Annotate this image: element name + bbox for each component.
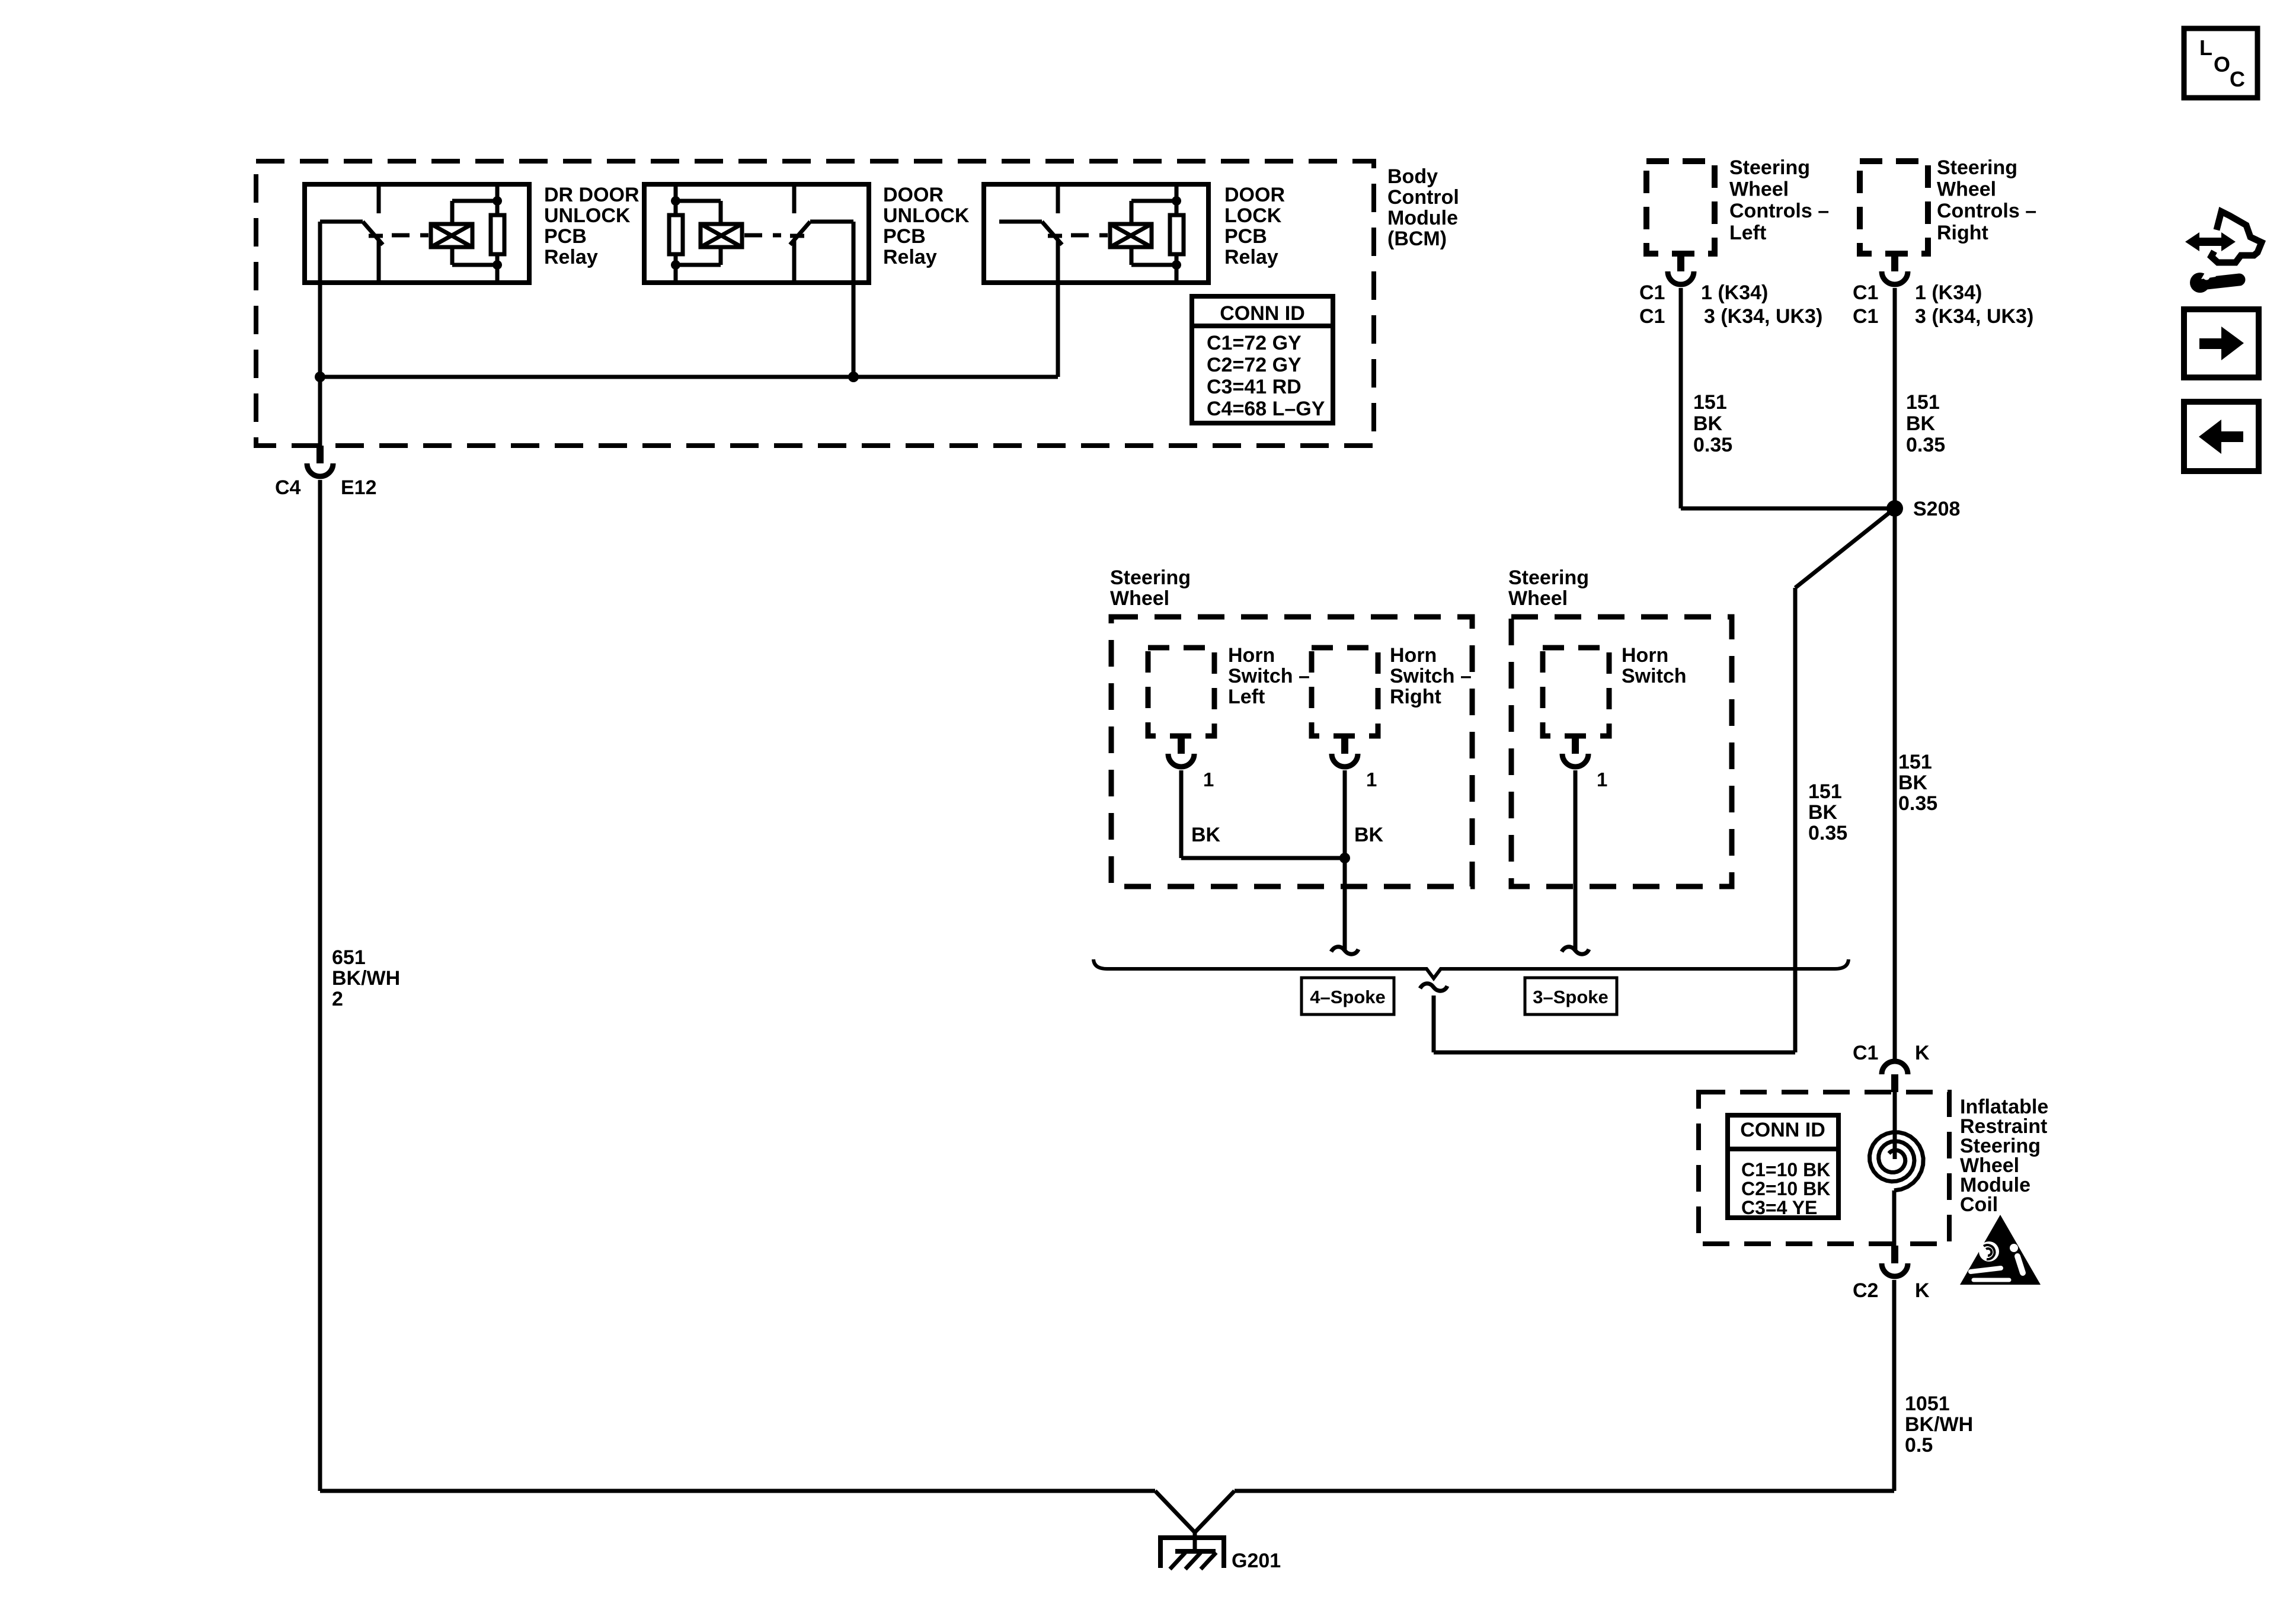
wire S208 diagonal branch <box>1795 508 1895 588</box>
svg-text:Steering: Steering <box>1110 566 1191 589</box>
svg-text:Controls –: Controls – <box>1729 200 1829 222</box>
svg-text:3–Spoke: 3–Spoke <box>1533 987 1609 1007</box>
svg-text:151: 151 <box>1808 780 1842 803</box>
wire horn join horizontal <box>1181 856 1345 860</box>
svg-text:3 (K34, UK3): 3 (K34, UK3) <box>1915 305 2033 328</box>
svg-text:Control: Control <box>1387 186 1459 209</box>
svg-text:C4: C4 <box>275 476 301 499</box>
wire relay K3 switch drop <box>1056 239 1060 377</box>
svg-text:C1: C1 <box>1853 1042 1878 1064</box>
connector horn left pin 1 <box>1178 736 1185 754</box>
svg-text:BK: BK <box>1354 824 1384 846</box>
svg-text:0.35: 0.35 <box>1898 792 1937 815</box>
svg-text:151: 151 <box>1898 751 1932 773</box>
svg-text:Steering: Steering <box>1937 156 2017 179</box>
svg-text:C1: C1 <box>1639 305 1665 328</box>
svg-text:Relay: Relay <box>1224 246 1278 268</box>
svg-text:C2: C2 <box>1853 1279 1878 1302</box>
svg-text:Switch –: Switch – <box>1228 665 1310 687</box>
break symbol 3-spoke wire <box>1562 947 1589 954</box>
relay K3 DOOR LOCK PCB Relay <box>984 184 1208 283</box>
svg-text:C1=72 GY: C1=72 GY <box>1207 332 1302 354</box>
svg-text:Horn: Horn <box>1390 644 1437 667</box>
wire bus to C4 <box>318 377 322 446</box>
4-Spoke option box <box>1302 978 1394 1014</box>
svg-text:0.35: 0.35 <box>1808 822 1847 844</box>
wire bottom right diagonal <box>1195 1491 1235 1532</box>
svg-text:0.35: 0.35 <box>1693 434 1732 456</box>
wire coil to C2 <box>1892 1190 1897 1246</box>
svg-text:4–Spoke: 4–Spoke <box>1310 987 1386 1007</box>
svg-text:Wheel: Wheel <box>1110 587 1169 610</box>
CONN ID table (coil) <box>1728 1115 1838 1218</box>
svg-text:BK: BK <box>1898 772 1928 794</box>
svg-text:PCB: PCB <box>544 225 587 248</box>
Horn Switch dashed box <box>1543 648 1609 736</box>
svg-text:C3=4 YE: C3=4 YE <box>1741 1197 1817 1218</box>
svg-text:L: L <box>2199 36 2212 60</box>
wire relay K2 switch drop <box>852 222 856 377</box>
svg-text:Controls –: Controls – <box>1937 200 2036 222</box>
svg-text:Relay: Relay <box>544 246 598 268</box>
svg-text:DOOR: DOOR <box>1224 184 1285 206</box>
svg-text:C1: C1 <box>1853 281 1878 304</box>
svg-text:1051: 1051 <box>1905 1393 1950 1415</box>
junction dot bus-K2 <box>848 372 859 382</box>
svg-text:Horn: Horn <box>1622 644 1668 667</box>
svg-text:Steering: Steering <box>1729 156 1810 179</box>
svg-text:Right: Right <box>1390 686 1441 708</box>
warning triangle SIR <box>1960 1215 2041 1285</box>
svg-text:BK: BK <box>1808 801 1838 824</box>
svg-text:651: 651 <box>332 946 366 969</box>
svg-text:C2=72 GY: C2=72 GY <box>1207 354 1302 376</box>
svg-text:1: 1 <box>1203 769 1214 790</box>
svg-text:C1: C1 <box>1853 305 1878 328</box>
Horn Switch - Left dashed box <box>1148 648 1214 736</box>
svg-text:BK: BK <box>1191 824 1221 846</box>
svg-text:BK/WH: BK/WH <box>1905 1413 1973 1436</box>
CONN ID table (BCM) <box>1192 296 1333 423</box>
wire 151 BK left <box>1679 288 1683 508</box>
connector horn right pin 1 <box>1341 736 1348 754</box>
wire left-to-S208 horizontal <box>1681 507 1895 511</box>
svg-text:C2=10 BK: C2=10 BK <box>1741 1178 1830 1199</box>
svg-text:Wheel: Wheel <box>1508 587 1568 610</box>
wire C2 down <box>1892 1280 1897 1491</box>
diagnostic icon (arrow, outline, wrench) <box>2185 232 2236 251</box>
svg-text:Coil: Coil <box>1960 1193 1998 1216</box>
splice S208 <box>1886 500 1903 517</box>
wire bottom right horizontal <box>1235 1489 1894 1493</box>
svg-text:C3=41 RD: C3=41 RD <box>1207 376 1302 398</box>
svg-text:BK: BK <box>1693 412 1723 435</box>
svg-text:3 (K34, UK3): 3 (K34, UK3) <box>1704 305 1822 328</box>
svg-text:C4=68 L–GY: C4=68 L–GY <box>1207 398 1325 420</box>
svg-text:BK/WH: BK/WH <box>332 967 400 990</box>
svg-text:Horn: Horn <box>1228 644 1275 667</box>
svg-text:UNLOCK: UNLOCK <box>544 204 631 227</box>
wire relay K1 switch drop <box>318 222 322 377</box>
svg-text:S208: S208 <box>1913 498 1960 520</box>
svg-text:Module: Module <box>1387 207 1458 229</box>
svg-text:Relay: Relay <box>883 246 937 268</box>
svg-text:LOCK: LOCK <box>1224 204 1282 227</box>
Steering Wheel Controls - Right dashed box <box>1860 161 1928 254</box>
wire horn single drop <box>1574 770 1578 950</box>
svg-text:K: K <box>1915 1279 1930 1302</box>
Steering Wheel left dashed box <box>1111 617 1472 886</box>
wire C1 to coil center <box>1893 1092 1897 1159</box>
svg-text:Wheel: Wheel <box>1937 178 1996 201</box>
svg-text:DR DOOR: DR DOOR <box>544 184 639 206</box>
svg-text:Body: Body <box>1387 165 1438 188</box>
svg-text:CONN ID: CONN ID <box>1220 302 1305 325</box>
LOC reference box <box>2184 28 2257 98</box>
svg-text:1 (K34): 1 (K34) <box>1915 281 1982 304</box>
svg-text:151: 151 <box>1693 391 1727 414</box>
svg-text:UNLOCK: UNLOCK <box>883 204 970 227</box>
ground G201 symbol <box>1193 1531 1197 1550</box>
connector SWC-Left <box>1677 254 1684 271</box>
svg-text:PCB: PCB <box>883 225 926 248</box>
wire S208 down to C1 <box>1893 508 1897 1060</box>
svg-text:Left: Left <box>1729 222 1766 244</box>
Horn Switch - Right dashed box <box>1312 648 1378 736</box>
connector C2 (coil) <box>1891 1246 1898 1263</box>
connector C1 (coil) <box>1891 1074 1898 1092</box>
wire 651 left drop <box>318 480 322 1491</box>
Inflatable Restraint coil dashed box <box>1699 1092 1949 1244</box>
wire bottom left diagonal <box>1155 1491 1195 1532</box>
svg-text:E12: E12 <box>341 476 377 499</box>
svg-text:0.35: 0.35 <box>1906 434 1945 456</box>
svg-text:Steering: Steering <box>1508 566 1589 589</box>
3-Spoke option box <box>1525 978 1617 1014</box>
svg-text:Wheel: Wheel <box>1729 178 1789 201</box>
svg-text:C1=10 BK: C1=10 BK <box>1741 1159 1830 1180</box>
brace spoke options <box>1093 959 1849 978</box>
wire branch bottom horizontal <box>1434 1051 1795 1055</box>
junction dot bus-K1 <box>315 372 325 382</box>
Steering Wheel Controls - Left dashed box <box>1646 161 1715 254</box>
svg-text:C: C <box>2230 67 2245 91</box>
svg-text:CONN ID: CONN ID <box>1740 1119 1825 1141</box>
left arrow nav box <box>2184 402 2259 471</box>
wire bottom left horizontal <box>320 1489 1155 1493</box>
svg-text:C1: C1 <box>1639 281 1665 304</box>
svg-text:Switch: Switch <box>1622 665 1687 687</box>
connector C4/E12 <box>316 446 324 463</box>
svg-text:Right: Right <box>1937 222 1988 244</box>
wire horn left drop <box>1179 770 1184 858</box>
svg-text:O: O <box>2214 52 2230 76</box>
Steering Wheel right dashed box <box>1511 617 1732 886</box>
svg-text:2: 2 <box>332 988 343 1010</box>
break symbol 4-spoke wire <box>1331 947 1358 954</box>
break symbol brace center <box>1420 984 1447 991</box>
coil spiral <box>1870 1132 1924 1190</box>
wire 151 BK right <box>1893 288 1897 508</box>
svg-text:151: 151 <box>1906 391 1940 414</box>
svg-text:Left: Left <box>1228 686 1265 708</box>
svg-text:BK: BK <box>1906 412 1936 435</box>
svg-text:PCB: PCB <box>1224 225 1267 248</box>
connector SWC-Right <box>1891 254 1898 271</box>
svg-text:DOOR: DOOR <box>883 184 944 206</box>
svg-text:0.5: 0.5 <box>1905 1434 1933 1457</box>
wire BCM internal bus <box>320 375 1058 379</box>
wire horn right drop <box>1343 770 1347 950</box>
svg-text:(BCM): (BCM) <box>1387 228 1447 250</box>
junction dot horn join <box>1339 853 1350 863</box>
wire branch up to brace <box>1432 996 1436 1052</box>
svg-text:1: 1 <box>1366 769 1377 790</box>
svg-text:K: K <box>1915 1042 1930 1064</box>
relay K1 DR DOOR UNLOCK PCB Relay <box>305 184 529 283</box>
svg-text:Switch –: Switch – <box>1390 665 1472 687</box>
svg-text:G201: G201 <box>1232 1550 1281 1572</box>
Body Control Module (BCM) dashed box <box>256 161 1374 446</box>
svg-text:1: 1 <box>1597 769 1607 790</box>
right arrow nav box <box>2184 309 2259 377</box>
wire branch vertical <box>1793 588 1798 1052</box>
relay K2 DOOR UNLOCK PCB Relay <box>644 184 869 283</box>
svg-text:1 (K34): 1 (K34) <box>1701 281 1768 304</box>
connector horn single pin 1 <box>1572 736 1579 754</box>
